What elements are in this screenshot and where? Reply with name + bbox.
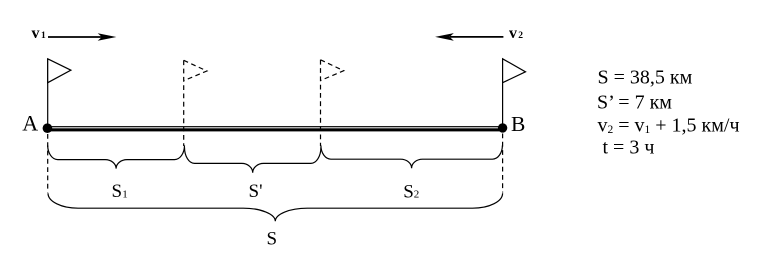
- svg-text:S: S: [403, 181, 414, 202]
- segment AB upper thin line: [47, 126, 504, 127]
- arrow v1: [48, 33, 116, 41]
- dashed flag 1 (pole): [183, 60, 185, 146]
- svg-text:2: 2: [414, 189, 420, 201]
- svg-text:S': S': [249, 181, 263, 202]
- segment AB lower thick line: [47, 128, 504, 131]
- svg-text:2: 2: [518, 31, 523, 41]
- dashed drop line below A: [47, 134, 49, 193]
- svg-text:t = 3 ч: t = 3 ч: [603, 137, 655, 159]
- flag at B (pole): [502, 59, 504, 128]
- brace S': [185, 147, 321, 172]
- svg-text:1: 1: [41, 31, 46, 41]
- svg-text:S’ = 7 км: S’ = 7 км: [597, 91, 672, 113]
- dashed drop line below B: [502, 134, 504, 193]
- point B dot: [498, 123, 507, 132]
- dashed flag 2 (pole): [320, 60, 322, 146]
- flag at A (pennant): [48, 59, 71, 83]
- point A dot: [43, 123, 53, 133]
- svg-text:S: S: [112, 181, 123, 202]
- flag at B (pennant): [503, 59, 526, 83]
- svg-text:v2 = v1 + 1,5 км/ч: v2 = v1 + 1,5 км/ч: [598, 115, 740, 137]
- flag at A (pole): [47, 59, 49, 128]
- svg-text:v: v: [509, 25, 517, 42]
- svg-text:S = 38,5 км: S = 38,5 км: [598, 67, 693, 89]
- svg-text:A: A: [22, 111, 38, 136]
- dashed flag 1 (pennant): [184, 60, 207, 80]
- svg-text:S: S: [267, 228, 278, 249]
- svg-text:v: v: [32, 25, 40, 42]
- dashed flag 2 (pennant): [321, 60, 344, 81]
- brace S2: [321, 145, 503, 168]
- svg-text:1: 1: [122, 188, 128, 200]
- svg-text:B: B: [511, 112, 525, 136]
- arrow v2: [435, 33, 503, 41]
- brace S (overall): [48, 193, 503, 221]
- brace S1: [48, 145, 185, 168]
